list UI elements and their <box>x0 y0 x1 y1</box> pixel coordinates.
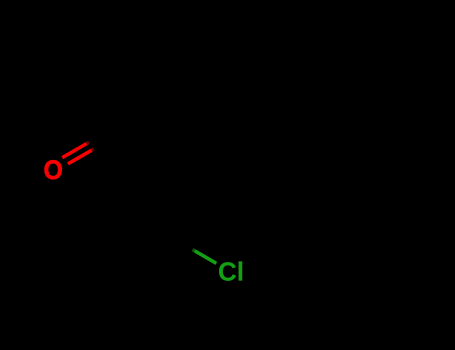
svg-text:Cl: Cl <box>218 257 244 287</box>
svg-text:O: O <box>44 156 63 185</box>
